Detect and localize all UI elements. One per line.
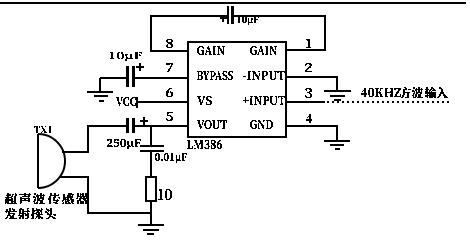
U1 pin label VOUT (pin 5) [197, 120, 227, 129]
wire TX1 bottom terminal [60, 176, 89, 178]
caption transmitting probe (fa she tan tou) [5, 208, 56, 219]
pin number 8 [166, 39, 173, 48]
pin number 5 [166, 112, 173, 121]
wire pin 4 drop to ground [336, 125, 338, 140]
capacitor C4 0.01uF plates [140, 145, 164, 147]
input label square wave input (fang bo shu ru) [401, 87, 448, 98]
R1 value 10 [158, 189, 172, 200]
transducer TX1 [37, 134, 39, 188]
C2 value 10uF [110, 52, 142, 61]
C3 value 250uF [107, 139, 141, 149]
wire C2 to ground [100, 77, 127, 79]
caption ultrasonic sensor (chao sheng bo chuan gan qi) [5, 193, 88, 204]
wire pin 8 [150, 50, 189, 52]
wire C3 left [89, 125, 127, 127]
U1 pin label VS (pin 6) [197, 96, 212, 105]
wire pin 2 drop to ground [336, 76, 338, 91]
C3 polarity plus [140, 120, 148, 122]
ground symbol at pin 2 [324, 90, 351, 92]
resistor R1 body [146, 177, 156, 201]
pin number 4 [306, 114, 312, 123]
wire pin 8 riser to top rail [150, 15, 152, 52]
pin number 2 [305, 63, 312, 72]
C1 value 10uF [238, 16, 259, 25]
U1 pin label GND (pin 4) [250, 120, 273, 129]
U1 pin label GAIN (pin 8) [197, 46, 225, 55]
input label 40KHZ [361, 88, 401, 97]
wire pin 5 [135, 125, 189, 127]
U1 pin label BYPASS (pin 7) [197, 71, 233, 80]
U1 pin label -INPUT (pin 2) [243, 71, 285, 80]
wire pin 6 [138, 101, 189, 103]
dashed 40KHz input line [327, 101, 449, 103]
U1 part number LM386 [187, 140, 222, 149]
wire R1 to ground [150, 201, 152, 225]
wire C4 to R1 [150, 152, 152, 176]
wire pin 2 [286, 76, 338, 78]
pin number 7 [166, 63, 173, 72]
wire pin 7 [134, 77, 189, 79]
wire bottom run to ground node [87, 212, 152, 214]
U1 pin label +INPUT (pin 3) [243, 96, 285, 105]
wire top rail left of C1 [150, 15, 227, 17]
pin number 1 [306, 39, 311, 48]
C2 polarity plus [136, 66, 144, 68]
TX1 reference label [34, 126, 51, 133]
wire TX1 drop [87, 177, 89, 214]
capacitor C2 10uF plates [126, 66, 129, 87]
ground symbol at pin 4 [324, 140, 350, 142]
ground symbol at C2 [87, 91, 113, 93]
VCC net label [116, 97, 136, 106]
C4 value 0.01uF [155, 153, 187, 163]
wire top rail right of C1 [234, 15, 326, 17]
wire top rail drop to pin 1 [324, 15, 326, 51]
wire TX1 top terminal [62, 151, 88, 153]
wire junction drop from pin 5 [150, 126, 152, 146]
U1 pin label GAIN (pin 1) [250, 46, 277, 55]
VCC terminal tick [136, 97, 138, 108]
wire drop to TX1 top terminal [87, 125, 89, 153]
capacitor C1 10uF plates [227, 6, 229, 24]
ground symbol bottom [138, 224, 164, 226]
wire pin 3 [286, 101, 325, 103]
wire pin 4 [286, 125, 338, 127]
op-amp U1 LM386 body [188, 42, 286, 137]
capacitor C3 250uF plates [126, 118, 129, 133]
C1 polarity plus [220, 17, 227, 19]
wire pin 1 [286, 49, 326, 51]
pin number 6 [166, 88, 173, 97]
pin number 3 [305, 88, 312, 98]
